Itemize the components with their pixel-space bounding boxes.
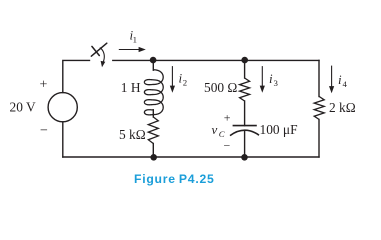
svg-text:v: v bbox=[212, 122, 218, 137]
svg-text:2: 2 bbox=[183, 78, 187, 88]
svg-text:20 V: 20 V bbox=[10, 100, 36, 115]
svg-text:+: + bbox=[40, 78, 48, 93]
svg-text:1 H: 1 H bbox=[121, 80, 141, 95]
svg-text:5 kΩ: 5 kΩ bbox=[119, 127, 146, 142]
svg-text:4: 4 bbox=[343, 79, 348, 89]
svg-text:2 kΩ: 2 kΩ bbox=[329, 100, 356, 115]
svg-text:i: i bbox=[338, 72, 342, 87]
svg-text:1: 1 bbox=[133, 34, 137, 44]
svg-text:100 μF: 100 μF bbox=[260, 122, 298, 137]
svg-text:−: − bbox=[224, 139, 231, 153]
svg-text:Figure P4.25: Figure P4.25 bbox=[134, 172, 215, 186]
svg-text:−: − bbox=[40, 124, 48, 139]
svg-text:i: i bbox=[269, 71, 273, 86]
svg-text:500 Ω: 500 Ω bbox=[204, 80, 237, 95]
svg-text:+: + bbox=[224, 111, 231, 125]
svg-text:3: 3 bbox=[274, 78, 279, 88]
svg-text:C: C bbox=[219, 129, 225, 139]
